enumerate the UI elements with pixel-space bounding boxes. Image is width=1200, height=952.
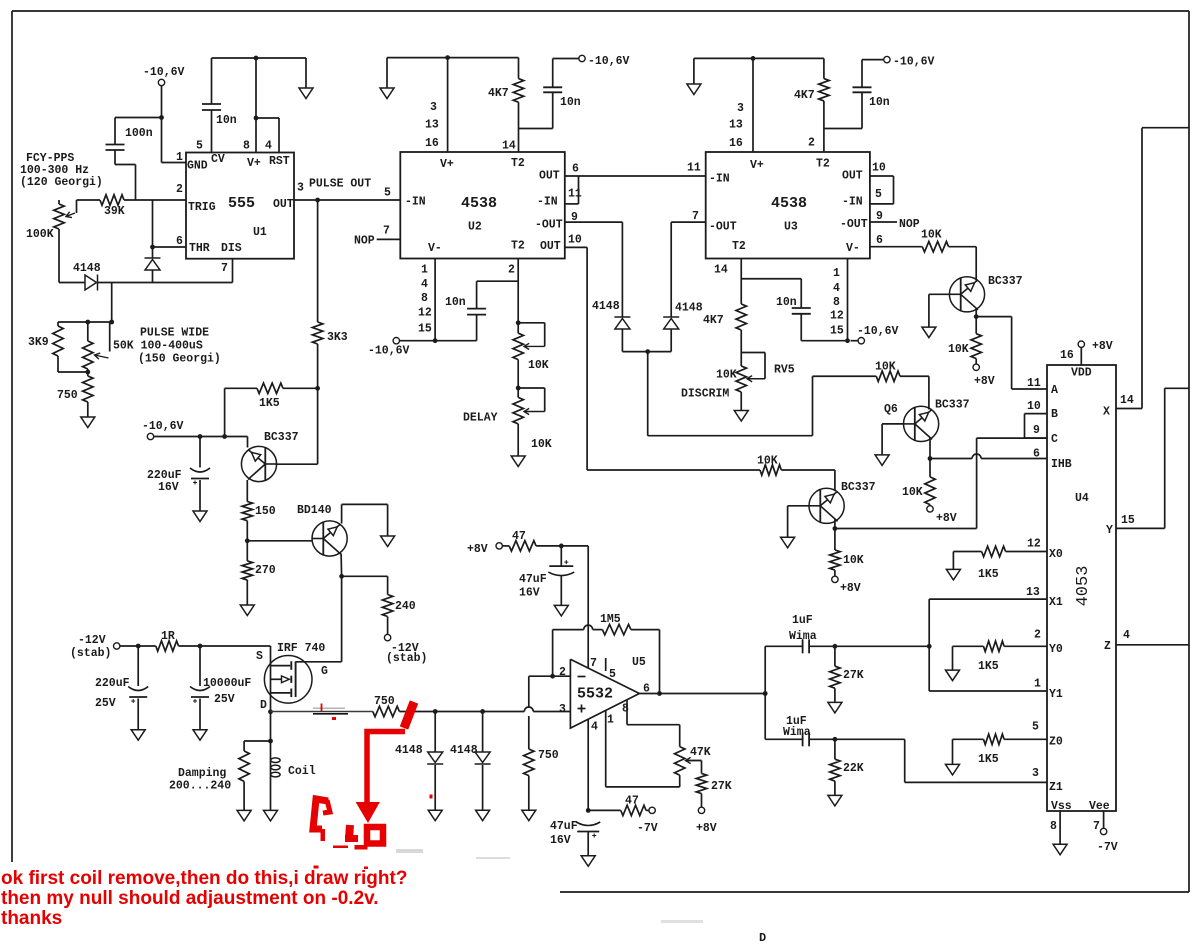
svg-text:-OUT: -OUT (709, 221, 737, 234)
U3 V+ riser pins 3,13,16 (752, 58, 754, 152)
svg-text:Q6: Q6 (884, 403, 898, 416)
svg-text:Wima: Wima (783, 726, 811, 739)
resistor 4K7 (U3 T2) (819, 79, 829, 101)
svg-text:2: 2 (559, 666, 566, 679)
svg-text:10K: 10K (531, 438, 552, 451)
terminal +8V (op-amp supply) (496, 543, 502, 549)
svg-text:RV5: RV5 (774, 364, 795, 377)
node diode merge (645, 349, 650, 354)
svg-text:10K: 10K (902, 486, 923, 499)
svg-text:Damping: Damping (178, 767, 226, 780)
svg-text:7: 7 (692, 210, 699, 223)
node 750 top (85, 370, 90, 375)
node V+ rail (254, 56, 259, 61)
potentiometer 100K (58, 200, 60, 204)
svg-text:4148: 4148 (592, 300, 620, 313)
svg-text:8: 8 (622, 703, 629, 716)
potentiometer 10K (delay 1) (513, 333, 523, 359)
node mid BC337 collector (834, 520, 836, 529)
wire DIS pin7 (232, 259, 234, 283)
red annotation arrow stroke (404, 702, 414, 728)
svg-text:4: 4 (1123, 629, 1130, 642)
svg-text:-10,6V: -10,6V (893, 56, 935, 69)
wire 47K wiper to 27K (688, 760, 702, 762)
svg-text:TRIG: TRIG (188, 201, 216, 214)
svg-text:47: 47 (625, 795, 639, 808)
U3 V- pin6 wire (870, 246, 922, 248)
U2 OUT pin6 wire to U3 pin11 (565, 175, 706, 177)
svg-text:10K: 10K (757, 455, 778, 468)
svg-text:1K5: 1K5 (259, 397, 280, 410)
resistor 750 (drain) (373, 706, 400, 716)
svg-text:25V: 25V (214, 693, 235, 706)
U2 -OUT pin9 wire (565, 221, 623, 223)
terminal -10,6V (U3 T2) (861, 60, 863, 88)
resistor 27K (feedback) (696, 773, 706, 793)
svg-text:750: 750 (538, 749, 559, 762)
U3 pin 7 -OUT wire (671, 221, 706, 223)
svg-text:3: 3 (559, 703, 566, 716)
svg-text:V+: V+ (440, 158, 454, 171)
svg-text:9: 9 (1033, 424, 1040, 437)
resistor 750 (pulse wide) (83, 376, 93, 402)
resistor 4K7 (U2 T2) (513, 79, 523, 103)
wire Q6 base to ground (882, 423, 904, 425)
node junction 100n/-10,6V (159, 115, 164, 120)
svg-text:4K7: 4K7 (794, 89, 815, 102)
wire pin14 to 10n (bottom) (741, 278, 801, 280)
wire pin2 (529, 675, 571, 677)
svg-text:T2: T2 (511, 240, 525, 253)
resistor 22K (834, 739, 836, 759)
svg-text:4053: 4053 (1074, 566, 1093, 607)
wire pulse-wide drop (111, 283, 113, 323)
wire 100n to TRIG net (114, 150, 116, 165)
resistor 47 (-7V) (588, 809, 621, 811)
wire pin2 to 10n (477, 280, 519, 282)
svg-text:12: 12 (830, 310, 844, 323)
resistor 3K9 (57, 322, 59, 326)
dark dash under drain wire (313, 713, 348, 715)
ground (47uF pin4) (581, 856, 595, 867)
svg-text:1K5: 1K5 (978, 753, 999, 766)
wire left border bus (11, 11, 13, 862)
svg-text:2: 2 (808, 137, 815, 150)
svg-text:47: 47 (512, 530, 526, 543)
svg-text:4K7: 4K7 (703, 314, 724, 327)
svg-text:4K7: 4K7 (488, 87, 509, 100)
svg-text:10n: 10n (776, 296, 797, 309)
U4 pin Y0 with 1K5 (946, 670, 960, 681)
red arrowhead (357, 803, 380, 823)
svg-text:BC337: BC337 (935, 399, 970, 412)
capacitor 47uF 16V (pin4) (576, 822, 600, 826)
svg-text:6: 6 (572, 163, 579, 176)
wire -12V rail (120, 645, 156, 647)
svg-text:5: 5 (384, 187, 391, 200)
wire pulse-wide top bracket (58, 321, 112, 323)
svg-text:1uF: 1uF (792, 614, 813, 627)
svg-text:G: G (321, 665, 328, 678)
svg-text:10n: 10n (445, 296, 466, 309)
svg-text:X1: X1 (1049, 596, 1063, 609)
svg-text:10: 10 (1027, 400, 1041, 413)
U2 V+ riser pins 3,13,16 (447, 58, 449, 152)
capacitor 10n (U2 delay) (476, 281, 478, 308)
svg-text:-OUT: -OUT (535, 219, 563, 232)
node 220uF 25V tap (136, 644, 141, 649)
potentiometer 47K (675, 747, 685, 776)
svg-text:12: 12 (418, 306, 432, 319)
ground (750) (81, 417, 95, 428)
svg-text:-OUT: -OUT (840, 218, 868, 231)
capacitor 1uF Wima (lower) (765, 738, 802, 740)
node PULSE OUT (315, 198, 320, 203)
svg-text:CV: CV (211, 153, 225, 166)
svg-text:BC337: BC337 (264, 431, 299, 444)
op-amp 5532 U5 triangle (570, 659, 639, 728)
svg-text:OUT: OUT (842, 170, 863, 183)
svg-text:V+: V+ (750, 159, 764, 172)
svg-text:22K: 22K (843, 762, 864, 775)
wire pin8 to 47K (626, 700, 628, 725)
svg-text:X: X (1103, 406, 1110, 419)
svg-text:-7V: -7V (637, 822, 658, 835)
resistor 10K (mid BC337 collector) (834, 529, 836, 551)
wire -10,6V to node (161, 86, 163, 118)
plus sign pin3 (578, 708, 586, 710)
svg-text:4148: 4148 (450, 744, 478, 757)
svg-text:-12V: -12V (78, 634, 106, 647)
svg-text:OUT: OUT (539, 170, 560, 183)
wire 100K to diode row (58, 229, 60, 283)
diode 4148 (clamp 1) (434, 712, 436, 753)
svg-text:16V: 16V (158, 481, 179, 494)
node wiper top (109, 320, 114, 325)
svg-text:9: 9 (571, 211, 578, 224)
U4 pin Y out (1116, 527, 1165, 529)
svg-text:-10,6V: -10,6V (143, 66, 185, 79)
node 1K5 tap (222, 434, 227, 439)
resistor 150 (242, 502, 252, 521)
svg-text:(stab): (stab) (70, 647, 111, 660)
svg-text:8: 8 (1050, 820, 1057, 833)
svg-text:-7V: -7V (1097, 841, 1118, 854)
ground (220uF 16V) (193, 511, 207, 522)
inductor Coil (270, 741, 272, 757)
wire BD140 emitter to ground (341, 504, 343, 523)
svg-text:BC337: BC337 (841, 481, 876, 494)
svg-text:(120 Georgi): (120 Georgi) (20, 176, 103, 189)
svg-text:150: 150 (255, 505, 276, 518)
resistor 240 (342, 575, 388, 577)
wire 1K5 to -10,6V rail (224, 388, 226, 435)
svg-text:270: 270 (255, 564, 276, 577)
op 4538 U2 box (400, 152, 565, 259)
wire 10K to Q6 collector (900, 375, 929, 377)
svg-text:ok first coil remove,then do t: ok first coil remove,then do this,i draw… (1, 868, 407, 889)
svg-text:1: 1 (607, 714, 614, 727)
svg-text:4148: 4148 (675, 302, 703, 315)
U3 pin1 riser labels 1,4,8,12,15 (847, 259, 849, 341)
svg-text:-10,6V: -10,6V (857, 325, 899, 338)
U4 pin Z0 with 1K5 (946, 764, 960, 775)
svg-text:4: 4 (833, 282, 840, 295)
svg-text:Z1: Z1 (1049, 781, 1063, 794)
svg-text:then my null should adjaustmen: then my null should adjaustment on -0.2v… (1, 888, 379, 909)
svg-text:220uF: 220uF (95, 677, 130, 690)
svg-text:10K: 10K (875, 361, 896, 374)
svg-text:DISCRIM: DISCRIM (681, 388, 729, 401)
svg-text:4538: 4538 (461, 195, 497, 212)
wire 1M5 to pin2 (552, 630, 554, 677)
capacitor 10n (U3 T2) (853, 86, 872, 88)
U4 pin7 -7V terminal (1103, 811, 1105, 828)
node 27K tap (833, 644, 838, 649)
svg-text:V-: V- (846, 242, 860, 255)
svg-text:47uF: 47uF (519, 573, 547, 586)
power terminal -10,6V (top left) (158, 79, 164, 85)
U4 pin X out (1116, 408, 1142, 410)
U3 -OUT pin9 NOP stub (870, 221, 897, 223)
svg-text:OUT: OUT (273, 198, 294, 211)
svg-text:14: 14 (1120, 394, 1134, 407)
node pin2 (550, 674, 555, 679)
node U3 V+ rail (751, 56, 756, 61)
wire diode merge (622, 351, 671, 353)
ground (clamp 2) (476, 810, 490, 821)
resistor 39K (77, 199, 101, 201)
svg-text:IRF 740: IRF 740 (277, 642, 325, 655)
node pin4/47uF (586, 808, 591, 813)
svg-text:47K: 47K (690, 746, 711, 759)
svg-text:555: 555 (228, 195, 255, 212)
node 4148 clamp 2 (480, 709, 485, 714)
wire pin10 long drop (586, 247, 588, 470)
svg-text:27K: 27K (711, 780, 732, 793)
svg-text:U5: U5 (632, 656, 646, 669)
node U3 V- (845, 338, 850, 343)
svg-text:100K: 100K (26, 228, 54, 241)
wire to Y1 (928, 646, 930, 691)
ground (delay pots) (517, 424, 519, 456)
capacitor 220uF 25V (137, 646, 139, 686)
svg-text:16V: 16V (550, 834, 571, 847)
wire 1R to IRF source (179, 645, 271, 647)
wire diode row to DIS (98, 282, 233, 284)
wire mid BC337 base to ground (788, 505, 810, 507)
U4 pin B bracket (1025, 413, 1048, 415)
svg-text:(150 Georgi): (150 Georgi) (138, 353, 221, 366)
svg-text:2: 2 (176, 183, 183, 196)
svg-text:NOP: NOP (899, 218, 920, 231)
svg-text:GND: GND (187, 160, 208, 173)
terminal -12V stab (240) (387, 617, 389, 635)
svg-text:5: 5 (196, 140, 203, 153)
resistor 750 (op-amp input) (528, 676, 530, 707)
U4 pin8 ground (1059, 811, 1061, 844)
ground (270) (240, 605, 254, 616)
svg-text:16V: 16V (519, 587, 540, 600)
svg-text:1R: 1R (161, 630, 175, 643)
capacitor 100n (106, 144, 125, 146)
node BD140 collector (339, 574, 344, 579)
svg-text:VDD: VDD (1071, 367, 1092, 380)
svg-text:3K3: 3K3 (327, 331, 348, 344)
diode 4148 (from U3 pin7) (670, 222, 672, 317)
svg-text:7: 7 (221, 262, 228, 275)
ground (mid BC337 base) (781, 537, 795, 548)
svg-text:Z0: Z0 (1049, 736, 1063, 749)
ground (BC337 base) (922, 327, 936, 338)
wire T2 pin2 (U3) (823, 129, 825, 153)
wire U2 T2 pin2 drop (517, 259, 519, 323)
svg-text:THR: THR (189, 242, 210, 255)
ground (damping) (237, 810, 251, 821)
svg-text:8: 8 (421, 292, 428, 305)
resistor 1K5 (BC337 base) (225, 387, 257, 389)
svg-text:14: 14 (714, 264, 728, 277)
terminal -10,6V (mid left) (147, 433, 153, 439)
resistor 27K (wima load) (834, 646, 836, 666)
wire 750 to op-amp +input with hop (399, 711, 524, 713)
transistor BC337 (top right) (975, 247, 977, 281)
svg-text:47uF: 47uF (550, 820, 578, 833)
svg-text:-10,6V: -10,6V (368, 345, 410, 358)
svg-text:V-: V- (428, 242, 442, 255)
wire THR pin6 (153, 246, 187, 248)
svg-text:12: 12 (1027, 538, 1041, 551)
svg-text:T2: T2 (816, 158, 830, 171)
svg-text:15: 15 (418, 322, 432, 335)
terminal -10,6V (U2 T2) (552, 59, 554, 88)
node output/wima riser (763, 691, 768, 696)
wire BD140 collector (340, 554, 343, 577)
node 47uF supply (559, 544, 564, 549)
ground (27K) (828, 702, 842, 713)
svg-text:10K: 10K (528, 359, 549, 372)
wire to BC337 base (317, 388, 319, 464)
wire U2 pin10 net + resistor 10K (587, 469, 760, 471)
svg-text:15: 15 (830, 325, 844, 338)
wire BC337-left collector drop (246, 480, 248, 502)
svg-text:1M5: 1M5 (600, 613, 621, 626)
svg-text:1: 1 (1034, 678, 1041, 691)
node THR (150, 245, 155, 250)
svg-text:Vee: Vee (1089, 800, 1110, 813)
svg-text:PULSE OUT: PULSE OUT (309, 178, 371, 191)
svg-text:Z: Z (1104, 640, 1111, 653)
U4 pin Y1 wire (929, 690, 1047, 692)
resistor 1R (156, 641, 179, 651)
svg-text:10n: 10n (560, 96, 581, 109)
terminal +8V (mid BC337) (834, 570, 836, 576)
svg-text:IHB: IHB (1051, 458, 1072, 471)
svg-text:S: S (256, 650, 263, 663)
svg-text:BD140: BD140 (297, 504, 332, 517)
resistor 270 (246, 541, 248, 561)
wire Q6 emitter (929, 438, 931, 459)
svg-text:1K5: 1K5 (978, 660, 999, 673)
terminal +8V (27K) (701, 794, 703, 808)
minus sign pin2 (578, 676, 586, 678)
wire top border bus (12, 10, 1189, 12)
ground (U2 V+ rail) (386, 58, 388, 88)
wire wima2 to Z1 (835, 738, 905, 740)
ground (clamp 1) (428, 810, 442, 821)
svg-text:750: 750 (57, 389, 78, 402)
svg-text:14: 14 (502, 140, 516, 153)
svg-text:4: 4 (421, 278, 428, 291)
ground (220uF 25V) (131, 730, 145, 741)
svg-text:6: 6 (176, 235, 183, 248)
gray dash above drain wire (313, 707, 345, 709)
resistor 4K7 (U3 pin14) (736, 304, 746, 330)
U2 V- riser pins 1,4,8,12,15 (434, 259, 436, 341)
svg-text:+8V: +8V (1092, 340, 1113, 353)
svg-text:DELAY: DELAY (463, 412, 498, 425)
red speck 2 (332, 717, 336, 720)
node X1/Y1 split (927, 644, 932, 649)
svg-text:10K: 10K (843, 554, 864, 567)
ground (47uF supply) (554, 605, 568, 616)
potentiometer RV5 10K DISCRIM (740, 330, 742, 366)
svg-text:5: 5 (875, 188, 882, 201)
wire drain to coil node (270, 712, 272, 741)
svg-text:8: 8 (243, 140, 250, 153)
ground (coil) (264, 810, 278, 821)
svg-text:11: 11 (568, 188, 582, 201)
svg-text:A: A (1051, 384, 1058, 397)
svg-text:thanks: thanks (1, 908, 62, 929)
wire OUT pin3 PULSE OUT (294, 199, 400, 201)
svg-text:+8V: +8V (936, 512, 957, 525)
svg-text:8: 8 (833, 296, 840, 309)
terminal -10,6V (U2 V-) (393, 338, 399, 344)
ground (555 V+ rail) (305, 58, 307, 88)
ground (10000uF) (193, 730, 207, 741)
node output/1M5 (657, 691, 662, 696)
svg-text:4148: 4148 (395, 744, 423, 757)
ground (BD140 emitter) (381, 536, 395, 547)
transistor BC337 (mid) (809, 488, 844, 523)
svg-text:240: 240 (395, 600, 416, 613)
svg-text:U3: U3 (784, 221, 798, 234)
svg-text:6: 6 (1033, 448, 1040, 461)
node BD140 base (245, 538, 250, 543)
wire pin1 loop (605, 711, 607, 787)
svg-text:2: 2 (508, 264, 515, 277)
resistor 47 (supply) (502, 545, 509, 547)
svg-text:U2: U2 (468, 221, 482, 234)
ground (RV5) (740, 392, 742, 411)
transistor Q6 BC337 (904, 406, 939, 441)
ground (Q6 base) (875, 455, 889, 466)
svg-text:-IN: -IN (537, 196, 558, 209)
svg-text:RST: RST (269, 155, 290, 168)
svg-text:+8V: +8V (840, 582, 861, 595)
U4 pin C wire (1025, 437, 1048, 439)
wire CV pin5 (211, 110, 213, 153)
U4 VDD pin16 +8V (1080, 347, 1082, 365)
svg-text:10K: 10K (921, 229, 942, 242)
red scribble square (367, 827, 383, 844)
node delay pot 2 (517, 360, 519, 388)
wire TRIG pin2 (124, 199, 186, 201)
wire right border bus (1188, 11, 1190, 892)
svg-text:U1: U1 (253, 226, 267, 239)
red scribble G shape (313, 799, 328, 829)
